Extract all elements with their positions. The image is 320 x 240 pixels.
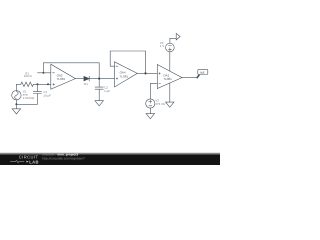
svg-text:1 µF: 1 µF: [104, 89, 110, 93]
svg-text:TL081: TL081: [120, 74, 129, 78]
svg-text:LAB: LAB: [29, 159, 39, 164]
wire V2 to op3 inverting input: [150, 83, 157, 85]
svg-text:TL081: TL081: [163, 77, 172, 81]
voltage source V2: [146, 84, 155, 114]
out label box: [198, 69, 208, 74]
wire op1 output to diode: [75, 78, 83, 80]
CircuitLab logo: [10, 154, 39, 164]
wire feedback top rail stage1: [43, 62, 99, 64]
R1 labels: [24, 71, 33, 78]
diode D1: [84, 76, 89, 81]
node B junction: [98, 77, 100, 79]
svg-text:100 Ω: 100 Ω: [24, 74, 33, 78]
out flag pointer: [197, 74, 199, 77]
svg-text:10 µF: 10 µF: [43, 93, 51, 97]
voltage source V1: [12, 84, 21, 104]
OA2 labels: [57, 73, 66, 80]
op-amp OA1: [157, 64, 182, 88]
ground G3: [166, 102, 174, 107]
wire feedback right vertical stage2: [144, 51, 146, 73]
wire V1 top to R1: [16, 83, 20, 85]
wire R1 to op-amp + input: [33, 83, 50, 85]
node op1 + pin: [47, 83, 49, 85]
ground G2: [95, 101, 103, 106]
node V1 bottom: [15, 103, 17, 105]
svg-text:D1: D1: [84, 82, 88, 86]
V2 labels: [155, 99, 165, 106]
svg-text:out: out: [200, 71, 205, 75]
wire feedback top rail stage2: [110, 50, 145, 52]
OA4 labels: [120, 70, 129, 78]
wire op2 output to op3: [137, 72, 157, 74]
wire diode to node B: [89, 78, 114, 80]
wire op2 inverting stub: [110, 65, 114, 67]
svg-text:1.59 kHz: 1.59 kHz: [23, 96, 35, 100]
op3 negative supply stub: [169, 83, 171, 102]
wire op1 inverting input: [37, 72, 50, 74]
op-amp OA2: [51, 64, 76, 89]
capacitor C1: [33, 84, 41, 104]
svg-text:473 mV: 473 mV: [155, 102, 165, 106]
node feedback to - input: [42, 72, 44, 74]
wire bottom rail V1/C1: [16, 103, 37, 105]
ground G1: [12, 104, 20, 114]
V1 labels: [23, 89, 35, 100]
ground G4: [146, 114, 154, 119]
node C1 junction: [36, 83, 38, 85]
resistor R1: [21, 82, 34, 86]
footer credit text: [42, 153, 85, 161]
voltage source V3: [166, 38, 177, 71]
wire feedback right vertical stage1: [98, 63, 100, 79]
OA1 labels: [163, 74, 172, 81]
footer bar: [0, 152, 220, 155]
op-amp OA4: [114, 62, 137, 87]
wire feedback left vertical stage2: [109, 51, 111, 66]
wire feedback left vertical: [42, 63, 44, 73]
capacitor C2: [95, 79, 103, 101]
node stage2 output junction: [144, 72, 146, 74]
node flag on V3: [176, 33, 180, 40]
C1 labels: [43, 90, 51, 97]
svg-text:1 V: 1 V: [160, 44, 164, 48]
svg-text:http:​//circuitlab.com/c/gnbam: http:​//circuitlab.com/c/gnbam7: [42, 156, 85, 160]
wire op3 output: [182, 77, 197, 79]
V3 labels: [160, 41, 164, 48]
svg-text:TL081: TL081: [57, 77, 66, 81]
C2 labels: [104, 86, 110, 93]
